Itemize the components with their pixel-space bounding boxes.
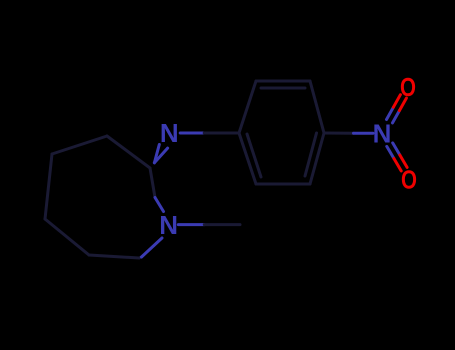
double bond N3=O top bbox=[387, 95, 407, 123]
bond C1-N2 bbox=[150, 168, 164, 212]
wire C-D bbox=[45, 154, 52, 219]
wire E-F bbox=[89, 255, 139, 258]
aromatic inner line right bbox=[305, 133, 317, 176]
double bond N3=O bottom bbox=[387, 143, 407, 171]
aromatic inner line lower-left bbox=[247, 134, 261, 177]
wire D-E bbox=[45, 219, 89, 255]
svg-text:N: N bbox=[159, 210, 178, 240]
bond N1-phenyl bbox=[180, 132, 239, 135]
double bond C1=N1 bbox=[154, 145, 167, 163]
benzene ring bbox=[239, 81, 324, 184]
svg-text:O: O bbox=[400, 72, 416, 102]
aromatic inner line top bbox=[261, 87, 305, 90]
svg-text:N: N bbox=[373, 119, 392, 149]
wire B-C bbox=[52, 136, 107, 154]
azepane ring carbon bonds bbox=[45, 136, 150, 258]
bond F-N2 bbox=[139, 238, 162, 258]
svg-text:O: O bbox=[401, 164, 417, 194]
methyl bond N2-CH3 bbox=[178, 223, 240, 226]
wire C1-B bbox=[107, 136, 150, 168]
bond phenyl-N3 bbox=[324, 132, 373, 135]
svg-text:N: N bbox=[160, 118, 179, 148]
